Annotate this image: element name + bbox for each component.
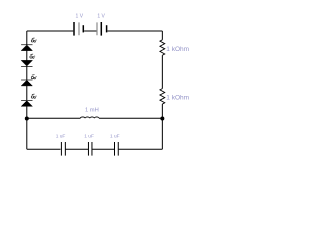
wire top-right corner down to resistor R1 <box>161 31 163 40</box>
svg-text:1 V: 1 V <box>97 13 105 19</box>
wire bottom-left corner to capacitor C1 <box>27 148 61 150</box>
svg-text:1 kOhm: 1 kOhm <box>166 95 189 102</box>
wire C2 to C3 <box>92 148 114 150</box>
battery V1 short plate <box>82 25 84 32</box>
battery V2 tall plate <box>100 22 102 36</box>
capacitor C2 right plate <box>91 142 93 156</box>
capacitor C1 left plate <box>60 142 62 156</box>
resistor R2 zigzag <box>160 89 165 104</box>
capacitor C3 right plate <box>117 142 119 156</box>
junction dot right <box>160 117 164 121</box>
svg-text:1 uF: 1 uF <box>110 134 120 140</box>
diode D3 part label <box>32 74 35 76</box>
svg-text:1 V: 1 V <box>76 13 84 19</box>
wire middle right segment <box>99 117 162 119</box>
diode D4 part label <box>32 93 35 95</box>
wire top-left to battery V1 <box>27 30 74 32</box>
wire D3 to D4 <box>26 86 28 100</box>
diode D2 cathode bar <box>21 65 32 67</box>
wire C3 to bottom-right corner <box>119 148 163 150</box>
wire C1 to C2 <box>66 148 89 150</box>
capacitor C3 left plate <box>114 142 116 156</box>
wire D4 to left junction <box>26 106 28 118</box>
wire resistor R2 to right junction <box>161 104 163 118</box>
diode D4 cathode bar <box>21 99 32 101</box>
wire D1 to D2 <box>26 51 28 61</box>
wire left junction to bottom-left corner <box>26 118 28 149</box>
diode D1 cathode bar <box>21 44 32 46</box>
svg-text:1 mH: 1 mH <box>85 108 99 114</box>
inductor L1 coil <box>80 117 99 118</box>
wire right junction down to bottom-right corner <box>161 118 163 149</box>
diode D3 cathode bar <box>21 79 32 81</box>
diode D1 part label <box>32 37 35 39</box>
wire between batteries <box>84 30 96 32</box>
svg-text:1 kOhm: 1 kOhm <box>166 46 189 53</box>
svg-text:1 uF: 1 uF <box>56 134 66 140</box>
wire battery V2 to top-right corner <box>107 30 162 32</box>
resistor R1 zigzag <box>160 40 165 55</box>
diode D1 triangle <box>21 45 32 51</box>
diode D2 triangle (pointing down) <box>21 60 32 66</box>
capacitor C1 right plate <box>64 142 66 156</box>
wire left vertical top segment <box>26 31 28 45</box>
battery V1 tall plate <box>73 22 75 36</box>
capacitor C2 left plate <box>87 142 89 156</box>
diode D3 triangle <box>21 80 32 86</box>
diode D2 part label <box>31 53 34 55</box>
battery V2 short plate <box>106 25 108 32</box>
battery V2 thin plate <box>96 22 98 35</box>
wire middle left segment <box>27 117 81 119</box>
wire resistor R1 to resistor R2 <box>161 55 163 88</box>
battery V1 thin plate <box>78 22 80 35</box>
junction dot left <box>25 117 29 121</box>
svg-text:1 uF: 1 uF <box>84 134 94 140</box>
diode D4 triangle <box>21 101 32 107</box>
wire D2 to D3 <box>26 66 28 80</box>
